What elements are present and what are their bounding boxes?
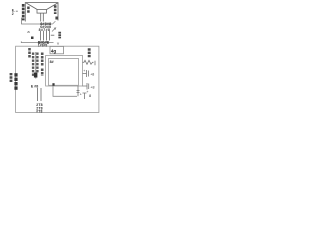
svg-text:+8: +8 <box>90 72 94 76</box>
svg-text:+: + <box>83 69 85 73</box>
svg-text:8: 8 <box>89 93 91 98</box>
svg-text:4g: 4g <box>51 49 57 54</box>
svg-text:2: 2 <box>12 12 14 16</box>
svg-text:Y: Y <box>54 26 57 31</box>
svg-text:#T8: #T8 <box>36 109 42 113</box>
svg-text:+8: +8 <box>90 85 94 89</box>
svg-text:E #8: E #8 <box>31 85 38 89</box>
svg-text:8#7#8: 8#7#8 <box>39 28 51 32</box>
svg-text:Y: Y <box>57 42 60 46</box>
svg-text:+: + <box>80 92 82 96</box>
svg-text:1#8#8: 1#8#8 <box>38 44 48 48</box>
svg-text:8#: 8# <box>50 60 54 64</box>
